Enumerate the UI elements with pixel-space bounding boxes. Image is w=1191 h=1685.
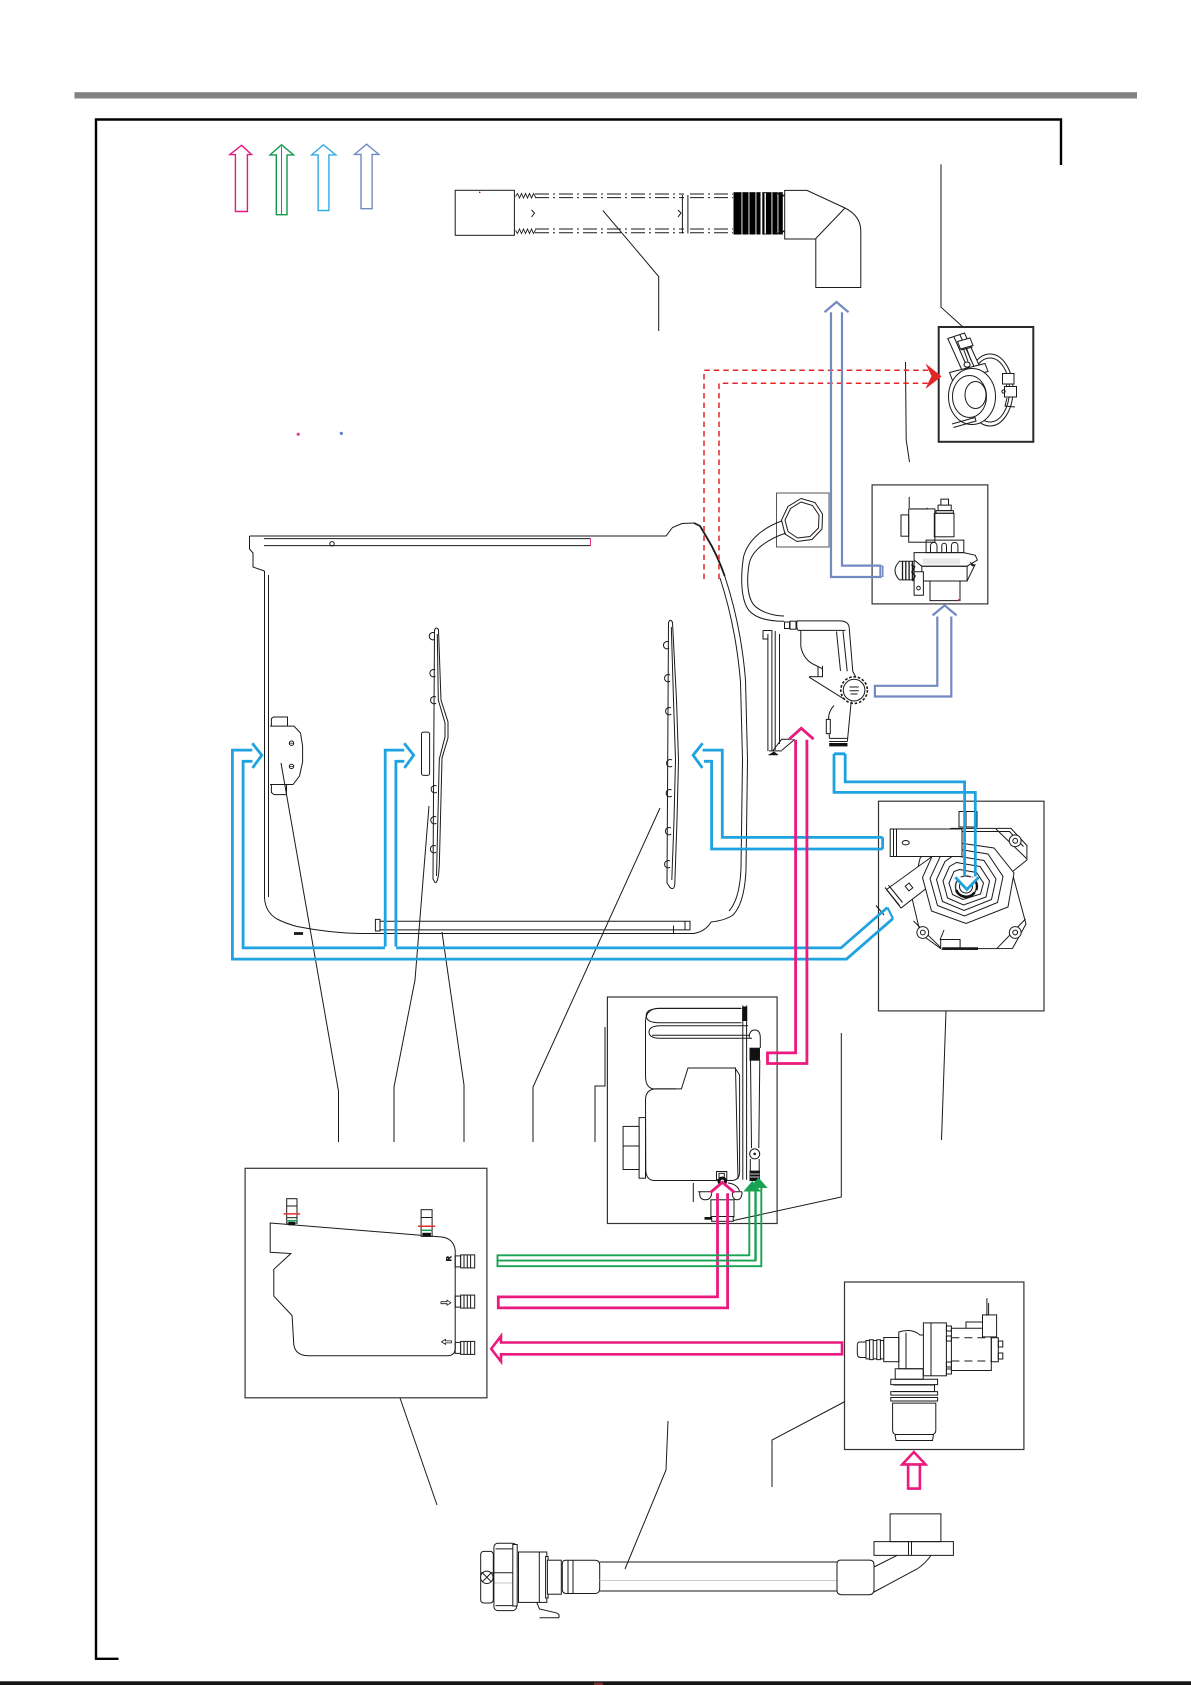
svg-text:R: R [446,1256,453,1261]
